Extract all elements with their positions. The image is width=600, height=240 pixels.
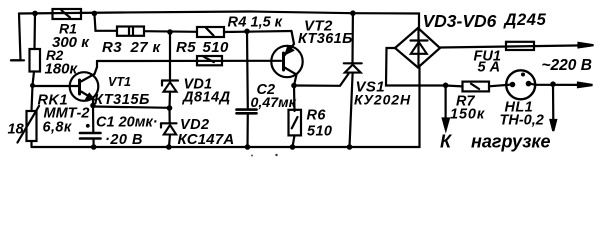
svg-text:К: К bbox=[440, 132, 453, 152]
svg-text:~220 В: ~220 В bbox=[542, 57, 592, 74]
svg-text:VD3-VD6: VD3-VD6 bbox=[423, 11, 497, 31]
svg-text:0,47мк: 0,47мк bbox=[251, 95, 297, 111]
svg-text:КУ202Н: КУ202Н bbox=[354, 92, 411, 108]
svg-text:КТ361Б: КТ361Б bbox=[298, 31, 353, 47]
svg-text:Д814Д: Д814Д bbox=[181, 90, 231, 106]
svg-text:5 А: 5 А bbox=[478, 60, 501, 76]
svg-text:R6: R6 bbox=[307, 108, 327, 124]
svg-text:150к: 150к bbox=[450, 107, 485, 123]
svg-text:27 к: 27 к bbox=[130, 39, 162, 56]
svg-text:нагрузке: нагрузке bbox=[471, 132, 551, 152]
svg-text:R4: R4 bbox=[228, 15, 247, 31]
svg-text:180к: 180к bbox=[45, 61, 79, 78]
svg-text:КС147А: КС147А bbox=[178, 131, 235, 148]
svg-text:ТН-0,2: ТН-0,2 bbox=[500, 113, 544, 129]
svg-text:Д245: Д245 bbox=[503, 11, 547, 29]
svg-text:·20 В: ·20 В bbox=[105, 132, 143, 148]
svg-text:1,5 к: 1,5 к bbox=[251, 15, 283, 31]
svg-text:510: 510 bbox=[307, 124, 332, 140]
svg-text:КТ315Б: КТ315Б bbox=[94, 92, 150, 108]
svg-text:510: 510 bbox=[203, 39, 229, 56]
svg-text:С1 20мк·: С1 20мк· bbox=[96, 115, 158, 131]
svg-text:R5: R5 bbox=[176, 39, 196, 56]
svg-text:R3: R3 bbox=[102, 39, 122, 56]
svg-text:18: 18 bbox=[8, 122, 25, 138]
svg-text:VT1: VT1 bbox=[108, 75, 131, 89]
svg-text:6,8к: 6,8к bbox=[43, 120, 72, 136]
